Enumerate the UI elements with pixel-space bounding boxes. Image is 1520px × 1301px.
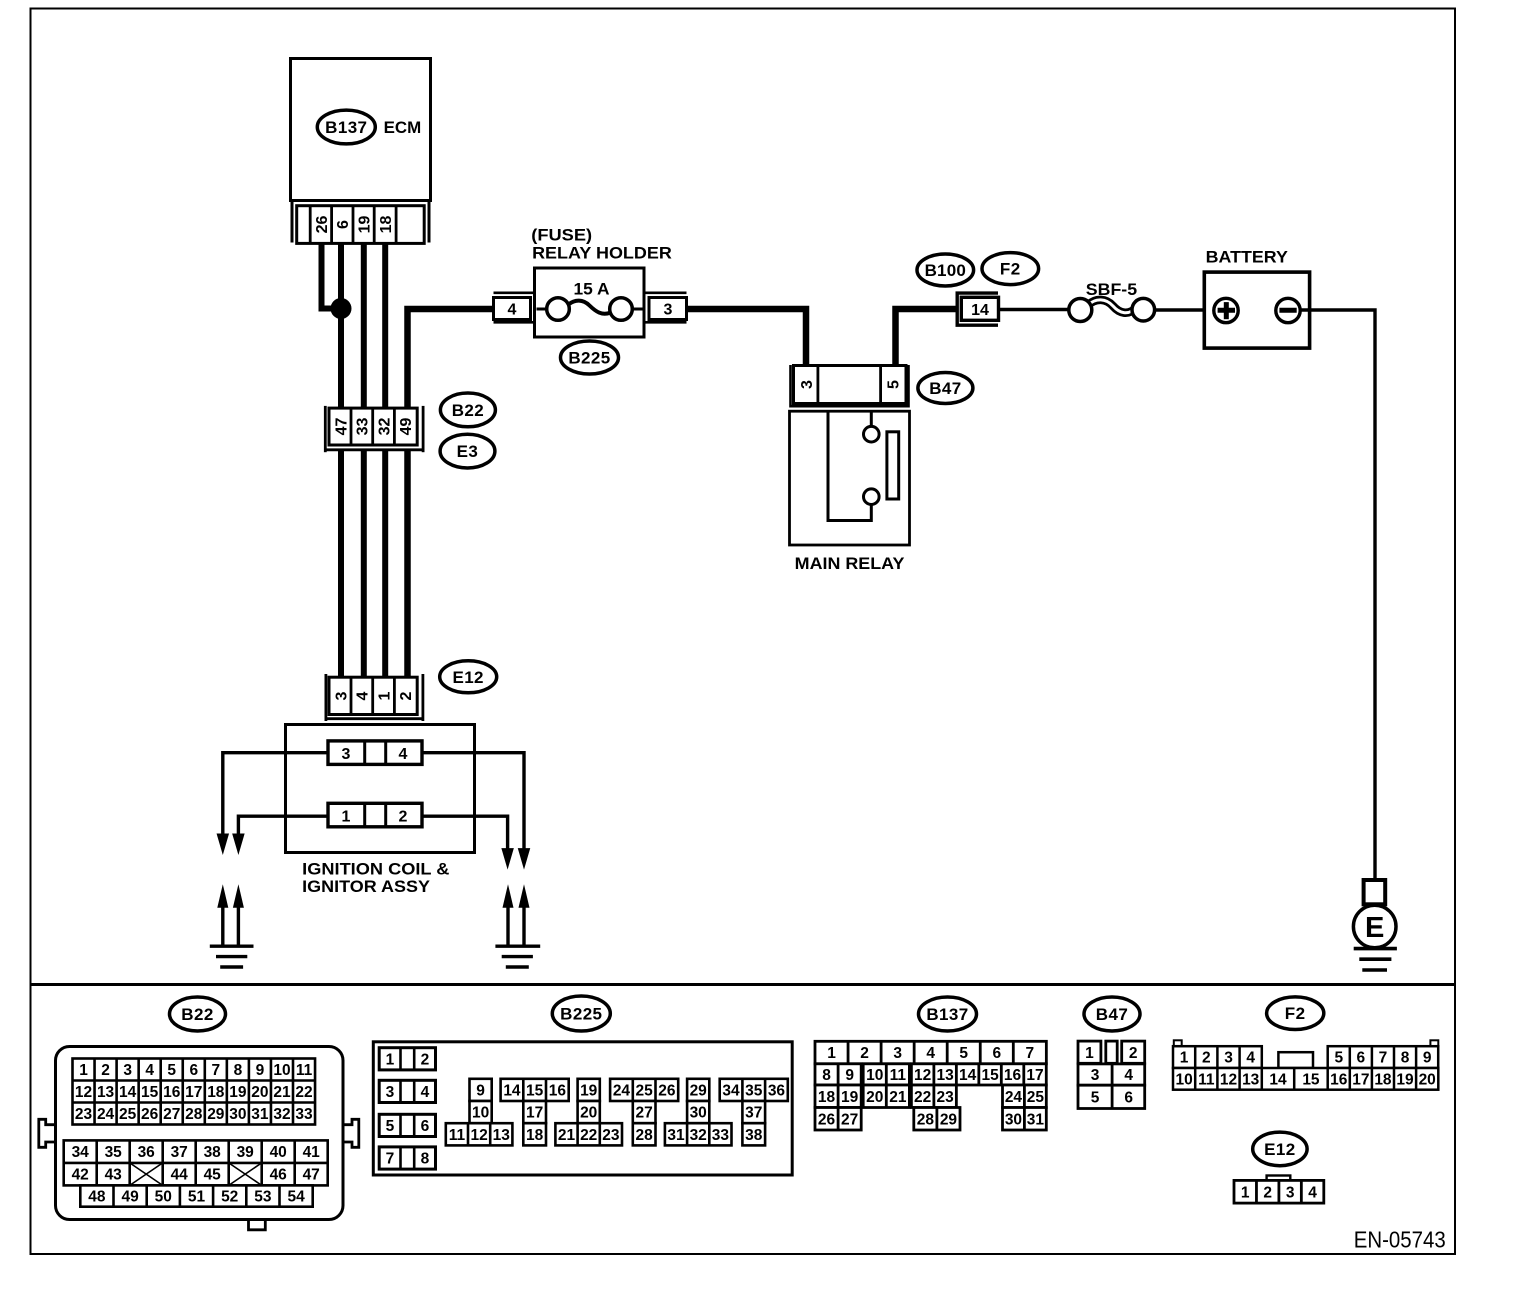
svg-text:20: 20 [866,1089,883,1106]
svg-text:4: 4 [1308,1184,1317,1201]
svg-text:ECM: ECM [384,118,422,137]
svg-text:31: 31 [667,1127,685,1144]
svg-text:18: 18 [818,1089,836,1106]
svg-text:5: 5 [959,1045,968,1062]
wire from terminal 14 to fusible link SBF-5 [999,308,1070,311]
svg-text:RELAY HOLDER: RELAY HOLDER [532,244,672,263]
svg-text:E12: E12 [452,668,483,687]
fuse terminal box pin 3 [649,298,687,320]
ECM connector strip B137 (pins 26,6,19,18) [292,200,429,243]
svg-text:5: 5 [1334,1050,1343,1067]
svg-text:1: 1 [1241,1184,1250,1201]
arrow to spark plug 3 [518,848,531,870]
svg-text:36: 36 [138,1144,156,1161]
fusible link SBF-5 symbol [1069,298,1155,321]
B225 pins 29-33 [665,1079,732,1146]
svg-text:52: 52 [221,1189,238,1206]
spark plug wire from coil pin 3 [223,753,328,835]
svg-text:8: 8 [234,1062,243,1079]
svg-text:1: 1 [1085,1045,1094,1062]
wire from SBF-5 to battery positive [1155,308,1216,311]
connector oval B137 (pinout) [919,997,977,1031]
F2 pinout pins 10-20 [1173,1068,1438,1090]
label (FUSE) RELAY HOLDER [531,226,672,263]
svg-text:19: 19 [580,1082,598,1099]
svg-text:28: 28 [636,1127,654,1144]
svg-text:39: 39 [237,1144,255,1161]
svg-text:35: 35 [105,1144,123,1161]
svg-text:47: 47 [333,418,350,436]
fuse terminal 3 rails [645,293,687,323]
svg-text:13: 13 [1242,1071,1260,1088]
svg-text:38: 38 [204,1144,222,1161]
wire from ECM pin 6 to connector B22 pin 47 [338,243,344,407]
svg-text:2: 2 [398,691,415,700]
label IGNITION COIL & IGNITOR ASSY [302,860,449,897]
relay pin 3 [799,380,816,389]
svg-text:13: 13 [936,1067,954,1084]
E12 pinout pins 1-4 [1234,1180,1324,1203]
inline connector E12 strip (pins 3,4,1,2) [326,674,423,721]
svg-text:9: 9 [845,1067,854,1084]
svg-text:2: 2 [421,1051,430,1068]
connector oval B47 [918,373,973,404]
svg-text:24: 24 [1005,1089,1023,1106]
svg-text:3: 3 [799,380,816,389]
coil connector pins 1/2 [328,803,422,827]
svg-text:29: 29 [207,1106,225,1123]
relay upper contact [864,426,880,442]
svg-text:B47: B47 [1096,1005,1128,1024]
svg-text:44: 44 [171,1167,189,1184]
E12 pin 3 [333,691,350,700]
svg-text:10: 10 [866,1067,883,1084]
svg-text:18: 18 [526,1127,544,1144]
svg-text:7: 7 [1379,1050,1388,1067]
svg-text:30: 30 [229,1106,246,1123]
svg-text:5: 5 [885,380,902,389]
svg-text:11: 11 [296,1062,313,1079]
svg-text:9: 9 [256,1062,265,1079]
svg-text:19: 19 [356,216,373,234]
svg-text:15: 15 [526,1082,544,1099]
svg-text:20: 20 [251,1084,268,1101]
svg-text:32: 32 [376,418,393,436]
main relay connector strip B47 (pins 3,5) [791,365,909,408]
svg-text:32: 32 [690,1127,707,1144]
spark gap arrows right [503,884,530,946]
svg-text:F2: F2 [1285,1004,1306,1023]
wire from relay pin 5 to bulkhead terminal 14 [896,309,957,366]
svg-text:B137: B137 [325,118,367,137]
svg-text:29: 29 [690,1082,708,1099]
svg-text:B100: B100 [925,261,966,280]
svg-text:26: 26 [314,216,331,234]
connector oval E3 [440,434,495,468]
svg-text:12: 12 [914,1067,931,1084]
svg-text:49: 49 [398,418,415,436]
svg-text:16: 16 [1330,1071,1348,1088]
connector oval B22 [440,393,495,427]
svg-text:14: 14 [119,1084,137,1101]
svg-text:37: 37 [171,1144,188,1161]
svg-text:13: 13 [97,1084,115,1101]
spark plug wire from coil pin 4 [422,753,524,849]
svg-text:SBF-5: SBF-5 [1086,280,1137,299]
fuse holder box B225 [535,268,645,337]
svg-text:14: 14 [503,1082,521,1099]
svg-text:16: 16 [549,1082,567,1099]
svg-text:B225: B225 [568,349,610,368]
svg-text:6: 6 [421,1118,430,1135]
connector oval B225 [561,341,619,374]
svg-text:1: 1 [79,1062,88,1079]
svg-text:42: 42 [72,1167,89,1184]
svg-text:6: 6 [335,220,352,229]
B137 pinout row pins 1-7 [815,1041,1046,1064]
svg-text:35: 35 [745,1082,763,1099]
B225 pins 5-6 [379,1114,435,1136]
svg-text:B47: B47 [929,379,961,398]
svg-text:38: 38 [745,1127,763,1144]
B225 pins 24-28 [610,1079,678,1146]
svg-text:30: 30 [690,1105,707,1122]
battery BT1 box [1204,272,1309,348]
ground right [495,946,540,967]
svg-text:27: 27 [163,1106,180,1123]
wire from ECM pin 18 to connector B22 pin 32 [382,243,388,407]
svg-text:17: 17 [1352,1071,1369,1088]
ground connector square [1364,880,1386,904]
svg-text:22: 22 [914,1089,931,1106]
svg-text:19: 19 [1396,1071,1414,1088]
svg-text:1: 1 [376,691,393,700]
svg-text:14: 14 [1269,1071,1287,1088]
connector oval F2 (pinout) [1267,997,1324,1030]
svg-text:2: 2 [1129,1045,1138,1062]
section divider line [31,983,1456,986]
ECM pin 6 [335,220,352,229]
svg-text:15 A: 15 A [574,280,610,299]
fuse terminal box pin 4 [494,298,531,320]
svg-text:4: 4 [926,1045,935,1062]
svg-text:25: 25 [636,1082,654,1099]
svg-text:3: 3 [1091,1067,1100,1084]
relay internal wire from pin 3 [828,412,871,521]
B225 pins 19-23 [555,1079,622,1146]
bulkhead connector terminal 14 (B100/F2) [957,293,998,325]
svg-text:41: 41 [303,1144,321,1161]
wire from fuse terminal 3 to main relay pin 3 [687,309,807,366]
svg-text:4: 4 [421,1084,430,1101]
connector B225 pinout housing [373,1042,792,1175]
svg-text:18: 18 [1374,1071,1392,1088]
svg-text:15: 15 [141,1084,159,1101]
svg-text:3: 3 [1224,1050,1233,1067]
svg-text:12: 12 [1220,1071,1237,1088]
svg-text:8: 8 [1401,1050,1410,1067]
svg-text:1: 1 [827,1045,836,1062]
svg-text:B137: B137 [926,1005,968,1024]
svg-text:2: 2 [399,808,408,825]
svg-text:IGNITION COIL &: IGNITION COIL & [302,860,449,879]
battery negative terminal [1276,298,1300,322]
svg-text:45: 45 [204,1167,222,1184]
figure number EN-05743 [1354,1227,1446,1253]
svg-text:34: 34 [722,1082,740,1099]
svg-text:22: 22 [295,1084,312,1101]
spark plug wire from coil pin 1 [238,816,328,834]
junction dot node A [331,298,352,319]
F2 pinout pins 1-4 [1173,1046,1262,1068]
B137 pinout row pins 18-25 [815,1085,1046,1108]
relay internal wire from pin 5 [870,412,873,426]
ground node E circle [1353,905,1396,948]
wire from battery negative to ground E [1300,310,1375,881]
coil connector pins 3/4 [328,741,422,765]
svg-text:9: 9 [476,1082,485,1099]
main relay body K1 [790,411,910,545]
inline connector B22/E3 strip (pins 47,33,32,49) [325,406,423,452]
label BATTERY [1206,248,1289,267]
B225 pins 9-13 [446,1079,513,1146]
connector oval E12 (pinout) [1253,1132,1307,1166]
arrow to spark plug 1 [217,834,230,856]
svg-text:20: 20 [580,1105,597,1122]
svg-text:3: 3 [333,691,350,700]
svg-text:11: 11 [890,1067,907,1084]
svg-text:2: 2 [1263,1184,1272,1201]
svg-text:21: 21 [558,1127,576,1144]
svg-text:1: 1 [342,808,351,825]
svg-text:21: 21 [889,1089,907,1106]
arrow to spark plug 4 [501,848,513,870]
svg-text:3: 3 [342,746,351,763]
svg-text:31: 31 [1027,1111,1045,1128]
B225 pins 7-8 [379,1147,435,1169]
svg-text:10: 10 [1175,1071,1192,1088]
svg-text:27: 27 [841,1111,858,1128]
E12 pin 4 [355,691,372,700]
relay pin 5 [885,380,902,389]
svg-text:4: 4 [145,1062,154,1079]
relay lower contact [864,489,880,505]
svg-text:12: 12 [470,1127,487,1144]
svg-text:17: 17 [526,1105,543,1122]
connector oval B225 (pinout) [552,996,610,1031]
svg-text:E12: E12 [1264,1140,1295,1159]
spark plug wire from coil pin 2 [422,816,508,848]
svg-text:36: 36 [768,1082,786,1099]
svg-text:30: 30 [1005,1111,1022,1128]
svg-text:E: E [1365,912,1384,944]
connector oval B22 (pinout) [170,997,226,1031]
svg-text:11: 11 [449,1127,466,1144]
B137 pinout row pins 26-31 [815,1108,1046,1131]
arrow to spark plug 2 [232,834,245,856]
svg-text:28: 28 [917,1111,935,1128]
B22 pinout grid pins 1-33 [73,1059,316,1125]
svg-text:4: 4 [508,302,517,319]
svg-text:(FUSE): (FUSE) [531,226,592,245]
svg-text:B22: B22 [181,1005,213,1024]
svg-text:53: 53 [254,1189,272,1206]
svg-text:3: 3 [664,302,673,319]
svg-text:5: 5 [386,1118,395,1135]
svg-text:3: 3 [123,1062,132,1079]
connector oval B137 [317,110,375,144]
svg-text:51: 51 [188,1189,206,1206]
svg-text:4: 4 [399,746,408,763]
svg-text:4: 4 [1124,1067,1133,1084]
ground left [210,946,254,967]
svg-text:33: 33 [355,418,372,436]
connector oval B100 [917,254,974,286]
svg-text:14: 14 [971,302,989,319]
svg-text:54: 54 [287,1189,305,1206]
wire B22 pin 33 to E12 pin 4 [361,450,367,676]
svg-text:25: 25 [119,1106,137,1123]
fuse terminal 4 rails [494,293,535,323]
label MAIN RELAY [795,554,905,573]
svg-text:50: 50 [155,1189,172,1206]
svg-text:20: 20 [1419,1071,1436,1088]
wire B22 pin 32 to E12 pin 1 [382,450,388,676]
svg-text:15: 15 [1302,1071,1320,1088]
B225 pins 1-2 [379,1048,435,1070]
svg-text:6: 6 [992,1045,1001,1062]
svg-text:B22: B22 [452,401,484,420]
svg-text:28: 28 [185,1106,203,1123]
label SBF-5 [1086,280,1137,299]
svg-text:IGNITOR ASSY: IGNITOR ASSY [302,877,430,896]
svg-text:4: 4 [1246,1050,1255,1067]
svg-text:49: 49 [121,1189,139,1206]
svg-text:B225: B225 [560,1005,602,1024]
svg-text:26: 26 [141,1106,159,1123]
svg-text:4: 4 [355,691,372,700]
svg-text:6: 6 [1124,1089,1133,1106]
B22 pinout grid pins 48-54 [80,1185,312,1206]
svg-text:33: 33 [712,1127,730,1144]
ground symbol E [1354,949,1397,970]
svg-text:31: 31 [251,1106,269,1123]
svg-text:12: 12 [75,1084,92,1101]
connector oval E12 [440,661,497,693]
svg-text:16: 16 [163,1084,181,1101]
B22 pin 33 [355,418,372,436]
ignition coil and ignitor assy box [286,725,475,853]
connector oval F2 [982,253,1039,285]
wire from ECM pin 19 to connector B22 pin 33 [361,243,367,407]
svg-text:23: 23 [936,1089,954,1106]
B225 pins 3-4 [379,1080,435,1102]
wire from fuse terminal 4 down to connector B22 pin 49 [408,309,494,407]
B47 pinout row pins 5-6 [1078,1085,1145,1108]
svg-text:2: 2 [101,1062,110,1079]
connector B22 pinout housing [39,1047,359,1230]
svg-text:16: 16 [1004,1067,1022,1084]
B47 pinout row pins 3-4 [1078,1064,1145,1085]
connector oval B47 (pinout) [1084,997,1140,1031]
svg-text:18: 18 [207,1084,225,1101]
svg-text:9: 9 [1423,1050,1432,1067]
svg-text:E3: E3 [457,442,479,461]
svg-text:8: 8 [822,1067,831,1084]
E12 pin 1 [376,691,393,700]
svg-text:1: 1 [386,1051,395,1068]
wire B22 pin 49 to E12 pin 2 [404,450,411,676]
B47 pinout row pins 1-2 [1078,1041,1145,1063]
svg-text:2: 2 [860,1045,869,1062]
svg-text:22: 22 [580,1127,597,1144]
B225 pins 34-38 [720,1079,788,1146]
svg-text:46: 46 [270,1167,288,1184]
svg-text:14: 14 [959,1067,977,1084]
E12 pinout key bump [1267,1176,1291,1182]
svg-text:23: 23 [602,1127,620,1144]
svg-text:34: 34 [72,1144,90,1161]
B22 pin 32 [376,418,393,436]
F2 pinout housing tabs [1174,1040,1439,1046]
ECM pin 18 [378,216,395,234]
svg-text:27: 27 [636,1105,653,1122]
svg-text:5: 5 [1091,1089,1100,1106]
svg-text:6: 6 [1357,1050,1366,1067]
fuse value label 15 A [574,280,610,299]
svg-text:24: 24 [97,1106,115,1123]
svg-text:37: 37 [745,1105,762,1122]
svg-text:48: 48 [88,1189,106,1206]
svg-text:26: 26 [658,1082,676,1099]
svg-text:BATTERY: BATTERY [1206,248,1289,267]
svg-text:17: 17 [185,1084,202,1101]
svg-text:13: 13 [493,1127,511,1144]
label ECM [384,118,422,137]
svg-text:15: 15 [981,1067,999,1084]
B22 pinout grid pins 34-47 [64,1140,328,1185]
svg-text:17: 17 [1026,1067,1043,1084]
svg-text:23: 23 [75,1106,93,1123]
svg-text:3: 3 [893,1045,902,1062]
svg-text:EN-05743: EN-05743 [1354,1227,1446,1253]
svg-text:24: 24 [613,1082,631,1099]
svg-text:2: 2 [1202,1050,1211,1067]
F2 pinout pins 5-9 [1328,1046,1439,1068]
svg-text:18: 18 [378,216,395,234]
ECM box U1 [291,59,431,201]
svg-text:21: 21 [273,1084,291,1101]
svg-text:7: 7 [386,1151,395,1168]
fuse F1 15A symbol [537,298,643,321]
ECM pin 19 [356,216,373,234]
B22 pin 47 [333,418,350,436]
svg-text:3: 3 [1286,1184,1295,1201]
svg-text:33: 33 [295,1106,313,1123]
wire B22 pin 47 to E12 pin 3 [338,450,344,676]
svg-text:10: 10 [273,1062,290,1079]
svg-text:19: 19 [229,1084,247,1101]
svg-text:8: 8 [421,1151,430,1168]
svg-text:MAIN RELAY: MAIN RELAY [795,554,905,573]
svg-text:6: 6 [189,1062,198,1079]
svg-text:29: 29 [940,1111,958,1128]
svg-text:7: 7 [212,1062,221,1079]
svg-text:3: 3 [386,1084,395,1101]
ECM pin 26 [314,216,331,234]
svg-text:F2: F2 [1000,260,1021,279]
svg-text:43: 43 [105,1167,123,1184]
